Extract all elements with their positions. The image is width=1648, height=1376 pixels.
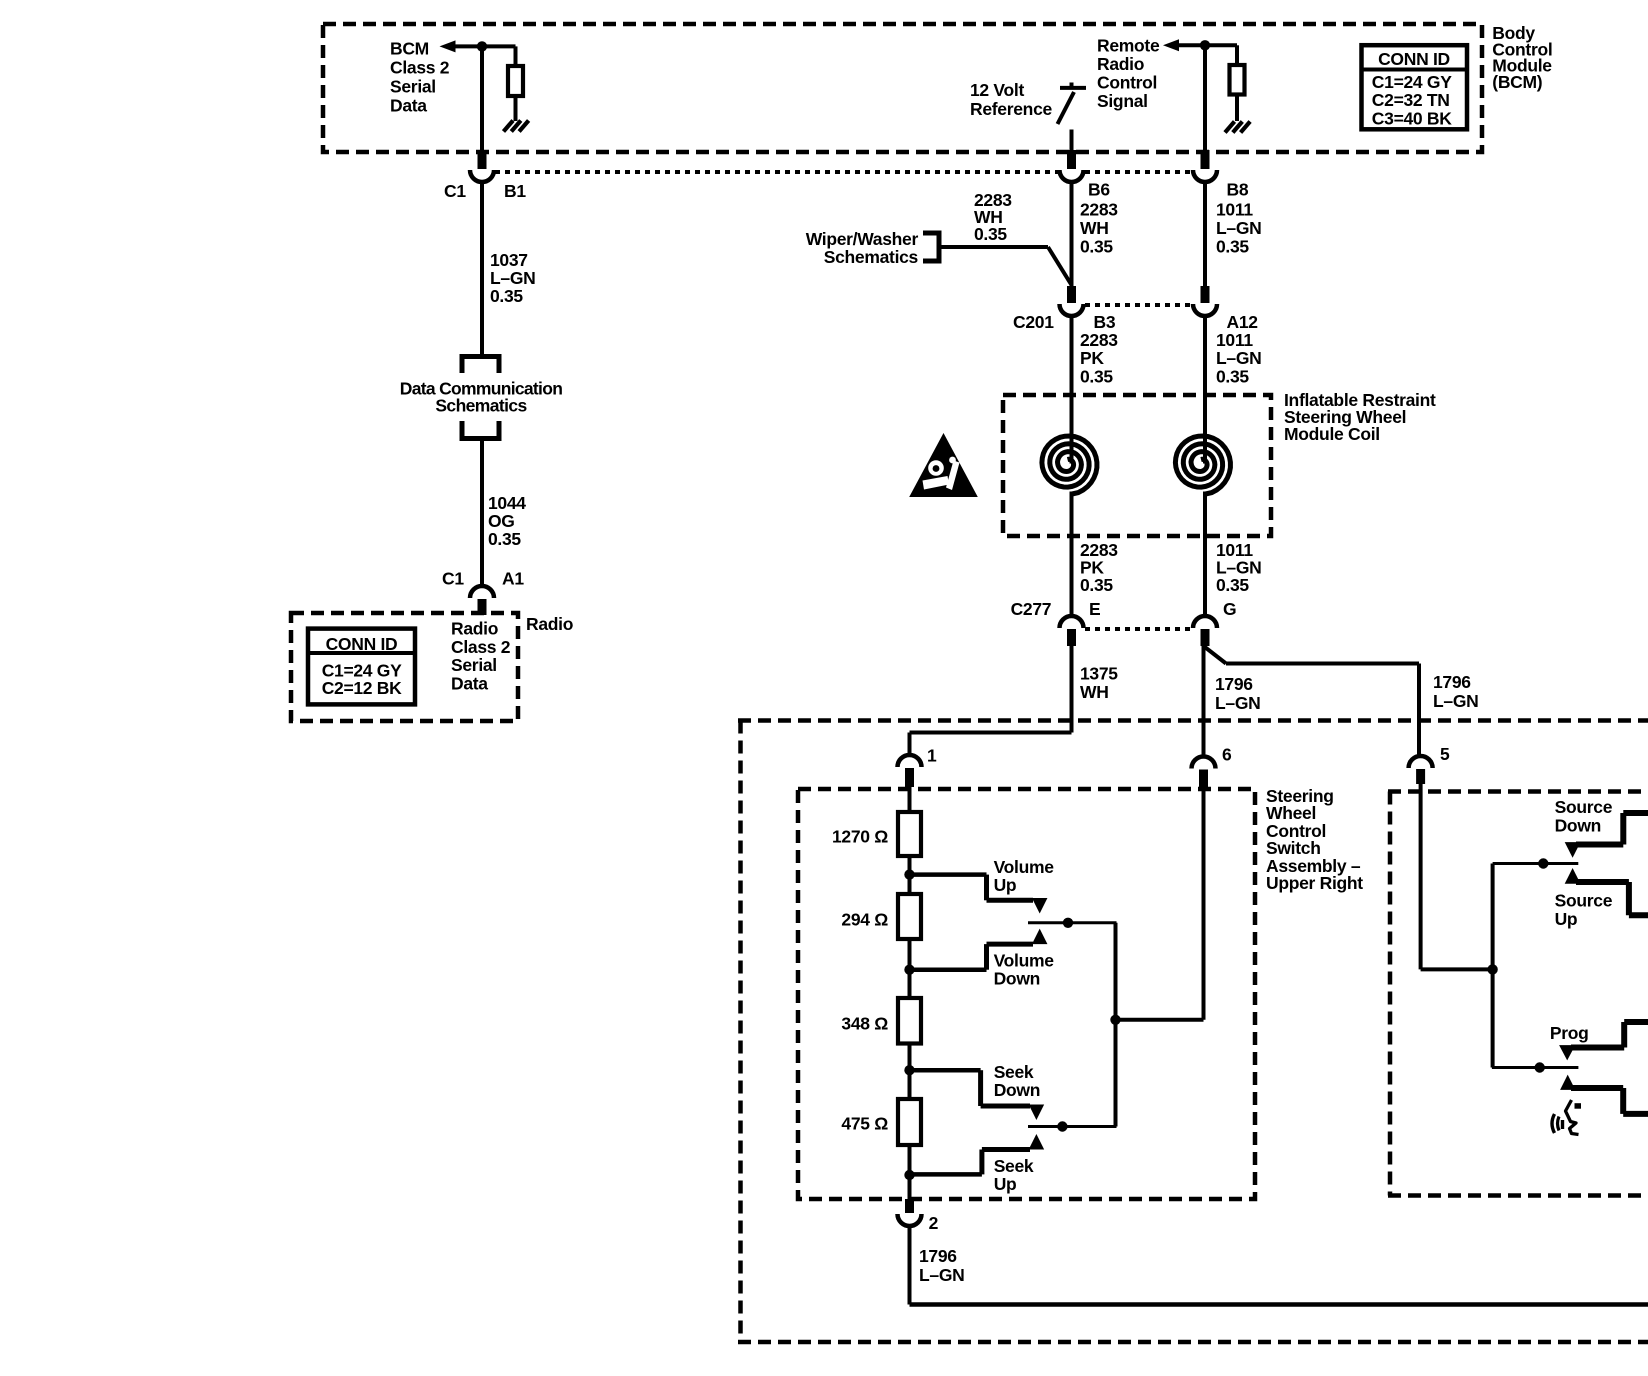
svg-text:E: E [1089, 599, 1100, 619]
svg-text:Up: Up [1555, 909, 1578, 929]
svg-text:Volume: Volume [994, 950, 1055, 970]
svg-text:Data: Data [390, 95, 427, 115]
svg-text:WH: WH [1080, 218, 1109, 238]
svg-text:Up: Up [994, 875, 1017, 895]
svg-text:Source: Source [1555, 797, 1613, 817]
svg-text:Prog: Prog [1550, 1023, 1589, 1043]
svg-text:Remote: Remote [1097, 36, 1160, 56]
svg-text:L–GN: L–GN [1433, 691, 1478, 711]
svg-text:0.35: 0.35 [1216, 366, 1249, 386]
svg-text:5: 5 [1440, 744, 1450, 764]
svg-text:C1=24 GY: C1=24 GY [1372, 72, 1452, 92]
svg-text:CONN ID: CONN ID [326, 634, 398, 654]
svg-text:C2=12 BK: C2=12 BK [322, 678, 402, 698]
svg-text:Source: Source [1555, 891, 1613, 911]
svg-text:Serial: Serial [390, 76, 436, 96]
svg-text:0.35: 0.35 [1080, 366, 1113, 386]
svg-text:Down: Down [1555, 815, 1601, 835]
svg-text:L–GN: L–GN [490, 268, 535, 288]
svg-text:Schematics: Schematics [435, 396, 527, 416]
svg-text:Down: Down [994, 968, 1040, 988]
svg-text:Upper Right: Upper Right [1266, 873, 1363, 893]
svg-text:0.35: 0.35 [488, 529, 521, 549]
svg-text:0.35: 0.35 [1216, 575, 1249, 595]
svg-text:OG: OG [488, 511, 515, 531]
svg-text:B6: B6 [1088, 180, 1110, 200]
svg-text:L–GN: L–GN [1215, 693, 1260, 713]
svg-text:1270 Ω: 1270 Ω [832, 827, 888, 847]
svg-text:0.35: 0.35 [1080, 236, 1113, 256]
svg-text:Schematics: Schematics [824, 247, 919, 267]
svg-text:Signal: Signal [1097, 91, 1148, 111]
svg-text:CONN ID: CONN ID [1378, 49, 1450, 69]
svg-text:0.35: 0.35 [1080, 575, 1113, 595]
svg-text:C2=32 TN: C2=32 TN [1372, 90, 1450, 110]
svg-text:6: 6 [1222, 745, 1232, 765]
svg-text:C1: C1 [444, 181, 466, 201]
svg-text:475 Ω: 475 Ω [841, 1114, 888, 1134]
svg-text:294 Ω: 294 Ω [841, 910, 888, 930]
svg-text:Radio: Radio [1097, 54, 1144, 74]
svg-text:L–GN: L–GN [1216, 348, 1261, 368]
svg-text:Seek: Seek [994, 1156, 1034, 1176]
svg-text:Class 2: Class 2 [390, 57, 450, 77]
svg-text:12 Volt: 12 Volt [970, 80, 1024, 100]
svg-text:1011: 1011 [1216, 330, 1253, 350]
svg-text:PK: PK [1080, 348, 1104, 368]
svg-text:348 Ω: 348 Ω [841, 1014, 888, 1034]
svg-text:L–GN: L–GN [1216, 218, 1261, 238]
svg-text:1375: 1375 [1080, 664, 1118, 684]
svg-text:Reference: Reference [970, 99, 1052, 119]
svg-text:1796: 1796 [1215, 674, 1253, 694]
svg-text:C277: C277 [1011, 599, 1052, 619]
svg-text:1: 1 [927, 746, 937, 766]
svg-text:Up: Up [994, 1174, 1017, 1194]
svg-text:1044: 1044 [488, 493, 526, 513]
svg-text:1796: 1796 [919, 1246, 957, 1266]
svg-text:A1: A1 [502, 568, 524, 588]
svg-text:Class 2: Class 2 [451, 637, 511, 657]
svg-text:1796: 1796 [1433, 672, 1471, 692]
svg-text:Data: Data [451, 673, 488, 693]
svg-text:2283: 2283 [1080, 330, 1118, 350]
svg-text:G: G [1223, 599, 1236, 619]
svg-text:Serial: Serial [451, 655, 497, 675]
svg-text:Down: Down [994, 1080, 1040, 1100]
svg-text:Radio: Radio [451, 619, 498, 639]
svg-text:1011: 1011 [1216, 199, 1253, 219]
svg-text:Control: Control [1097, 73, 1157, 93]
svg-text:Seek: Seek [994, 1062, 1034, 1082]
svg-text:B8: B8 [1227, 180, 1249, 200]
svg-text:0.35: 0.35 [1216, 236, 1249, 256]
svg-text:(BCM): (BCM) [1492, 72, 1542, 92]
svg-text:1037: 1037 [490, 250, 528, 270]
svg-text:L–GN: L–GN [919, 1265, 964, 1285]
svg-text:Radio: Radio [526, 614, 573, 634]
svg-text:2283: 2283 [1080, 199, 1118, 219]
svg-text:0.35: 0.35 [974, 224, 1007, 244]
svg-text:C3=40 BK: C3=40 BK [1372, 108, 1452, 128]
svg-text:Volume: Volume [994, 857, 1055, 877]
svg-text:Module Coil: Module Coil [1284, 424, 1380, 444]
svg-text:0.35: 0.35 [490, 286, 523, 306]
svg-text:BCM: BCM [390, 38, 429, 58]
svg-text:C201: C201 [1013, 312, 1054, 332]
svg-text:2: 2 [929, 1213, 939, 1233]
svg-text:Wiper/Washer: Wiper/Washer [806, 229, 919, 249]
svg-text:B1: B1 [504, 181, 526, 201]
svg-text:C1: C1 [442, 568, 464, 588]
svg-text:WH: WH [1080, 682, 1109, 702]
